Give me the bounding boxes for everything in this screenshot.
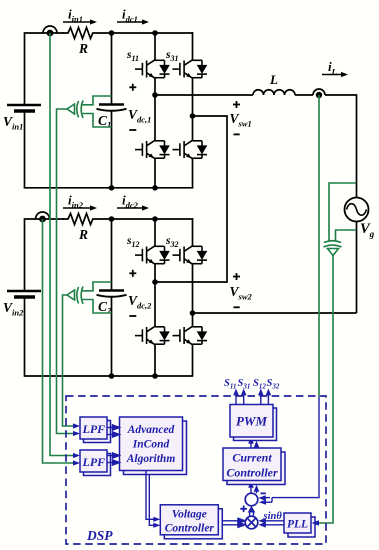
wire: top rail circuit1 <box>24 32 64 34</box>
wire: Vg sense to PLL <box>316 255 333 524</box>
label Vdc2 with polarity <box>128 270 152 316</box>
wire: to grid rail <box>325 95 357 198</box>
current sensor i_in1 (arc + dot) <box>43 26 57 36</box>
wire: capacitor branch C1 <box>111 33 113 188</box>
transistor S21 (lower left) <box>135 140 170 158</box>
battery Vin1 <box>7 33 41 188</box>
wire: i_in1 sense <box>50 33 74 456</box>
svg-text:Controller: Controller <box>226 466 278 480</box>
wire: bridge2 leg1 <box>154 219 156 376</box>
wire: capacitor branch C2 <box>111 219 113 376</box>
gate signal S12 <box>258 389 264 405</box>
arrows: LPF1 to algorithm <box>107 425 120 437</box>
wire: Vdc2 sense <box>63 295 74 426</box>
node dot <box>152 373 158 379</box>
node dot <box>152 185 158 191</box>
svg-text:Algorithm: Algorithm <box>126 453 176 465</box>
wire: i_L feedback into summing node <box>265 396 319 502</box>
voltage sensor Vg (green) <box>324 183 357 256</box>
label Vsw1 with polarity <box>230 101 252 134</box>
node A: bridge1 output + <box>152 92 158 98</box>
resistor R (circuit1) <box>63 28 111 57</box>
transistor S22 (lower left) <box>135 326 170 344</box>
svg-text:InCond: InCond <box>132 439 170 451</box>
arrow pair: summing node to current controller <box>248 481 259 494</box>
arrow i_in2 <box>63 193 97 211</box>
svg-text:LPF: LPF <box>82 455 106 469</box>
transistor S11 <box>126 49 170 78</box>
node dot <box>152 30 158 36</box>
arrow i_dc1 <box>117 7 149 25</box>
wire: grid rail lower <box>356 222 358 314</box>
voltage sensor 2 (green, across C2) <box>67 282 112 313</box>
Voltage Controller block <box>160 505 222 539</box>
arrow pair: multiplier to summing node <box>250 511 254 516</box>
wire: bridge1- to bridge2+ <box>155 116 227 282</box>
arrows: LPF2 inputs <box>73 453 80 466</box>
wire: top rail circuit2 <box>24 218 64 220</box>
node dot <box>109 373 115 379</box>
node dot <box>152 216 158 222</box>
arrows: LPF1 inputs (navy heads) <box>73 423 80 436</box>
wire: bottom rail circuit2 <box>24 375 194 377</box>
wire: rail to bridge <box>111 32 193 34</box>
capacitor C2 <box>97 291 127 316</box>
svg-text:sinθ: sinθ <box>263 511 283 522</box>
DSP dashed boundary <box>66 396 326 544</box>
svg-text:Controller: Controller <box>165 523 215 535</box>
node D: bridge2 output - <box>190 310 196 316</box>
minus sign at summing input <box>261 492 266 494</box>
transistor S31 <box>165 49 207 78</box>
wire: rail to bridge2 <box>111 218 193 220</box>
arrow i_dc2 <box>117 193 149 211</box>
svg-text:LPF: LPF <box>82 422 106 436</box>
svg-text:PLL: PLL <box>287 519 308 531</box>
svg-text:R: R <box>78 227 88 242</box>
transistor S42 (lower right) <box>173 326 208 344</box>
arrows: voltage controller to multiplier <box>222 518 245 527</box>
label Vdc1 with polarity <box>128 84 151 130</box>
node dot <box>109 216 115 222</box>
plus sign at summing input <box>240 506 247 513</box>
svg-text:Advanced: Advanced <box>127 424 175 436</box>
label Vsw2 with polarity <box>230 273 253 307</box>
node dot <box>109 185 115 191</box>
transistor S12 <box>126 235 170 264</box>
node C: bridge2 output + <box>152 279 158 285</box>
svg-text:R: R <box>78 41 88 56</box>
svg-text:PWM: PWM <box>236 414 268 429</box>
wire: i_in2 sense <box>43 219 74 463</box>
wire: Vdc1 sense <box>57 109 74 434</box>
wire: bridge1 leg1 <box>154 33 156 188</box>
gate signal S32 <box>266 389 272 405</box>
wire <box>295 94 313 96</box>
LPF block 2 <box>80 450 111 476</box>
resistor R (circuit2) <box>63 214 111 243</box>
voltage sensor 1 (green, across C1) <box>67 96 112 127</box>
wire: bridge2 leg2 <box>192 218 194 376</box>
svg-text:DSP: DSP <box>86 528 113 543</box>
transistor S32 <box>165 235 207 264</box>
PWM block <box>230 405 277 441</box>
Current Controller block <box>223 448 285 485</box>
arrow pair: current controller to PWM <box>248 437 259 448</box>
wire: Vsw1+ to inductor <box>155 94 253 96</box>
summing node (circle) <box>245 493 258 506</box>
capacitor C1 <box>97 105 127 130</box>
arrow i_L <box>322 59 348 77</box>
svg-text:Current: Current <box>232 451 272 465</box>
Advanced InCond Algorithm block <box>120 417 187 475</box>
wire: i_L sense (green above DSP) <box>318 95 320 396</box>
node dot <box>109 30 115 36</box>
svg-text:L: L <box>269 72 278 87</box>
arrow: Vg sense into PLL <box>312 520 320 526</box>
AC source Vg <box>345 198 375 240</box>
gate signal S31 <box>241 389 247 405</box>
node B: bridge1 output - <box>190 113 196 119</box>
battery Vin2 <box>7 219 41 376</box>
arrows: LPF2 to algorithm <box>107 453 120 465</box>
arrows: PLL to multiplier <box>258 518 284 528</box>
wire: bottom rail circuit1 <box>24 187 194 189</box>
LPF block 1 <box>80 417 111 443</box>
arrow i_in1 <box>63 7 97 25</box>
gate signal S11 (arrow up from PWM) <box>233 389 239 405</box>
wire pair: algorithm to voltage controller <box>146 471 154 526</box>
wire: Vsw2- to grid <box>193 312 357 314</box>
current sensor i_L (arc + dot) <box>313 89 325 98</box>
current sensor i_in2 (arc + dot) <box>36 212 50 222</box>
PLL block <box>284 513 315 537</box>
transistor S41 (lower right) <box>173 140 208 158</box>
multiplier (circle with X) <box>245 516 258 529</box>
inductor L <box>253 72 295 95</box>
wire: bridge1 leg2 <box>192 32 194 188</box>
svg-text:Voltage: Voltage <box>172 509 207 521</box>
